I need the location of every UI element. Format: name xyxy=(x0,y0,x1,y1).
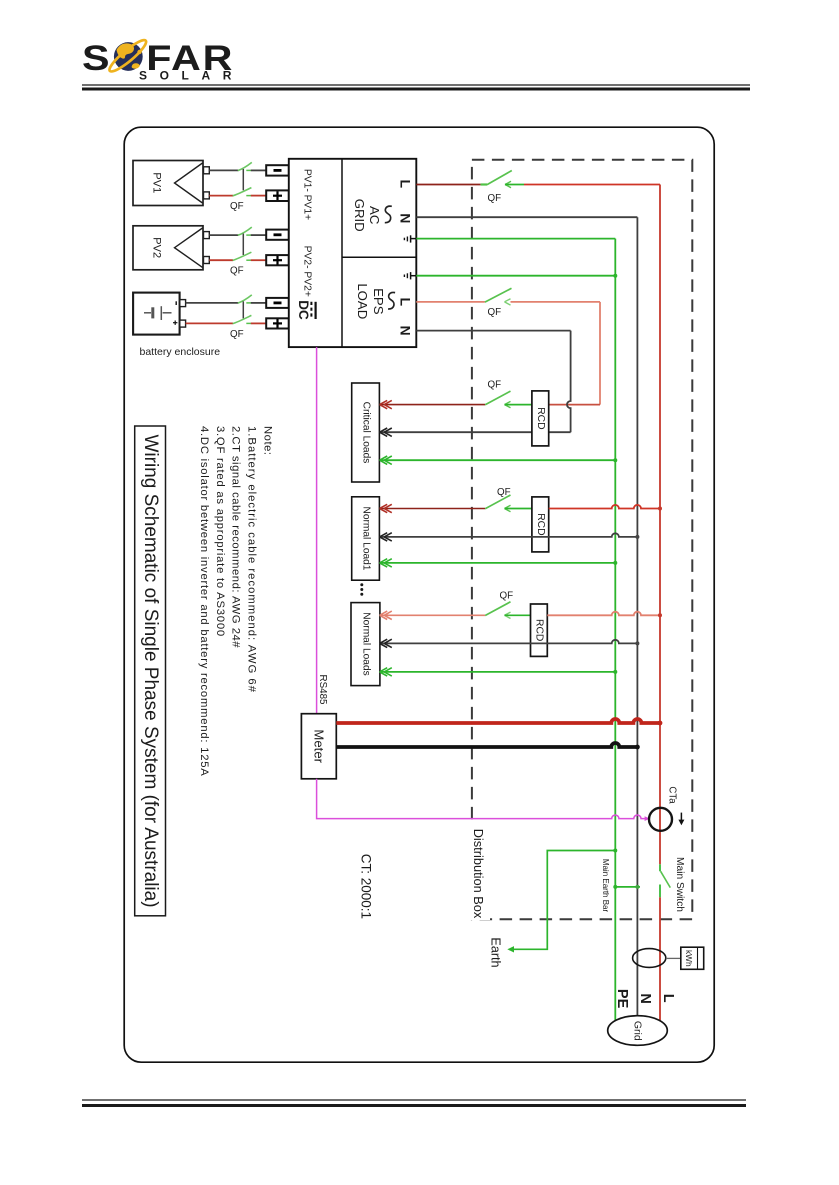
svg-text:N: N xyxy=(637,993,653,1003)
wire PV2+ to QF xyxy=(209,259,233,261)
wire EPS L vertical drop xyxy=(599,302,601,405)
wire EPS N vertical drop xyxy=(567,331,571,433)
svg-text:LOAD: LOAD xyxy=(355,283,370,319)
svg-text:AC: AC xyxy=(367,206,382,225)
svg-text:QF: QF xyxy=(488,193,502,204)
wire QF to block PV2- xyxy=(251,234,266,236)
svg-text:4.DC isolator between inverter: 4.DC isolator between inverter and batte… xyxy=(198,426,210,777)
svg-text:RCD: RCD xyxy=(535,513,546,535)
svg-text:L: L xyxy=(397,298,412,306)
inverter label DC with symbol xyxy=(296,300,316,320)
wire NL1 L RCD to red bus with hops xyxy=(549,505,660,509)
svg-text:QF: QF xyxy=(230,201,244,212)
svg-text:Grid: Grid xyxy=(632,1021,644,1041)
svg-text:Normal Loads: Normal Loads xyxy=(361,612,372,675)
wire EPS N inverter to vertical xyxy=(416,330,570,332)
wire NLs N with hop xyxy=(380,640,637,644)
svg-text:PV1: PV1 xyxy=(151,172,163,193)
red bus L below main switch xyxy=(659,897,661,1022)
PV2 minus terminal xyxy=(204,232,210,239)
junction critical PE xyxy=(613,458,617,462)
svg-text:PE: PE xyxy=(614,989,630,1009)
PV2 plus terminal xyxy=(204,257,210,264)
svg-text:RCD: RCD xyxy=(533,619,544,641)
wire RS485 inverter to meter xyxy=(316,347,318,714)
junction MEN neutral bus xyxy=(635,885,639,889)
current transformer CTa xyxy=(649,808,672,831)
PV1 plus terminal xyxy=(204,192,210,199)
wire GRID L inverter to QF xyxy=(416,184,480,186)
wire QF to block PV1+ xyxy=(251,195,266,197)
logo SOFAR SOLAR xyxy=(82,37,244,83)
arrows critical PE xyxy=(380,456,392,464)
wire EPS L QF to vertical xyxy=(511,301,601,303)
breaker QF2 (PV2 DC isolator) xyxy=(230,227,252,276)
wire EPS N to critical loads xyxy=(380,431,571,433)
breaker QF grid L xyxy=(487,171,524,204)
CT arrow magenta xyxy=(645,816,650,821)
MEN link wire xyxy=(615,886,640,888)
svg-text:QF: QF xyxy=(230,265,244,276)
svg-text:Meter: Meter xyxy=(311,729,326,763)
svg-text:Earth: Earth xyxy=(488,937,502,967)
svg-text:CTa: CTa xyxy=(666,786,677,804)
wire GRID N inverter to bus xyxy=(416,216,637,218)
svg-text:2.CT signal cable recommend: A: 2.CT signal cable recommend: AWG 24# xyxy=(230,426,242,648)
grid source ellipse xyxy=(608,1016,668,1046)
normal loads box xyxy=(351,603,380,686)
wire GRID L QF to red bus xyxy=(524,184,660,186)
junction NL1 L xyxy=(658,507,662,511)
wire GRID PE inverter to bus xyxy=(416,238,615,240)
battery enclosure box xyxy=(133,293,180,335)
svg-text:Main Earth Bar: Main Earth Bar xyxy=(601,859,610,913)
svg-text:S: S xyxy=(82,39,110,78)
junction NLs PE xyxy=(613,670,617,674)
wire NL1 N with hop xyxy=(380,533,637,537)
inverter U1 xyxy=(289,159,417,347)
arrows NLs PE xyxy=(380,668,392,676)
svg-text:3.QF rated as appropriate to A: 3.QF rated as appropriate to AS3000 xyxy=(214,426,226,637)
CTa direction arrow xyxy=(678,813,684,826)
ellipsis dots between load boxes xyxy=(360,583,363,595)
svg-text:GRID: GRID xyxy=(352,199,367,232)
arrows NL1 PE xyxy=(380,559,392,567)
junction NLs N xyxy=(635,641,639,645)
breaker QF1 (PV1 DC isolator) xyxy=(230,162,252,211)
wire battery+ to QF xyxy=(186,322,233,324)
arrows critical N xyxy=(380,428,392,436)
schematic outer border xyxy=(124,127,714,1062)
svg-text:kWh: kWh xyxy=(684,950,694,967)
inverter label GRID AC ~ xyxy=(352,199,392,232)
wire EPS L to RCD1 with hop xyxy=(549,404,600,406)
svg-text:QF: QF xyxy=(230,329,244,340)
wire NLs PE xyxy=(380,671,615,673)
wire meter CT magenta with hops xyxy=(317,779,648,819)
arrows NL1 N xyxy=(380,533,392,541)
svg-text:1.Battery electric cable recom: 1.Battery electric cable recommend: AWG … xyxy=(245,426,257,693)
wire critical PE xyxy=(380,459,615,461)
wire PV1+ to QF xyxy=(209,195,233,197)
RCD3 xyxy=(531,604,548,656)
main switch on L bus xyxy=(660,864,670,897)
svg-text:QF: QF xyxy=(500,591,514,602)
kWh register box xyxy=(681,947,704,969)
header rule xyxy=(82,85,750,89)
svg-text:Main Switch: Main Switch xyxy=(674,857,685,912)
svg-text:EPS: EPS xyxy=(371,288,386,315)
battery minus terminal xyxy=(180,300,186,307)
terminal block BAT+ xyxy=(266,318,289,328)
svg-text:L: L xyxy=(397,180,412,188)
arrows critical L xyxy=(380,400,392,408)
wire QF to block BAT- xyxy=(251,302,266,304)
wire kWh link xyxy=(666,957,681,959)
title box xyxy=(135,426,166,916)
junction meter L xyxy=(658,721,663,726)
junction NLs L xyxy=(658,613,662,617)
wire EPS L inverter to QF xyxy=(416,301,485,303)
critical loads box xyxy=(352,383,380,482)
wire PV1- to QF xyxy=(209,169,238,171)
svg-text:Note:: Note: xyxy=(262,426,274,456)
red bus L vertical xyxy=(659,185,661,865)
battery plus terminal xyxy=(180,320,186,327)
svg-text:Normal Load1: Normal Load1 xyxy=(361,507,372,571)
terminal block BAT- xyxy=(266,298,289,308)
distribution box label xyxy=(467,826,490,920)
note text xyxy=(198,426,273,777)
svg-text:Critical Loads: Critical Loads xyxy=(361,402,372,464)
dark bus N vertical xyxy=(636,217,638,1017)
svg-text:N: N xyxy=(397,326,412,336)
svg-text:QF: QF xyxy=(488,380,502,391)
earth branch wire xyxy=(509,851,615,950)
junction earth branch xyxy=(613,849,617,853)
svg-text:CT: 2000:1: CT: 2000:1 xyxy=(359,854,374,919)
wire NLs L RCD to red bus with hops xyxy=(547,612,660,616)
svg-text:PV1- PV1+: PV1- PV1+ xyxy=(301,169,312,220)
wire EPS PE inverter to bus xyxy=(416,275,615,277)
PV panel PV1 xyxy=(133,161,203,206)
svg-text:QF: QF xyxy=(488,307,502,318)
wire QF to block BAT+ xyxy=(251,322,266,324)
wire meter N thick black with hop xyxy=(336,743,637,747)
svg-text:SOLAR: SOLAR xyxy=(139,69,244,83)
junction MEN green bus xyxy=(613,885,617,889)
wire NL1 L box to QF xyxy=(380,508,485,510)
inverter EPS PE ground symbol xyxy=(404,272,416,279)
svg-text:QF: QF xyxy=(497,487,511,498)
terminal block PV1+ xyxy=(266,190,289,201)
svg-text:N: N xyxy=(397,213,412,223)
breaker QF normal load1 xyxy=(485,487,532,512)
junction NL1 PE xyxy=(613,561,617,565)
earth arrow xyxy=(507,946,514,952)
svg-text:PV2: PV2 xyxy=(151,237,163,258)
arrows NLs N xyxy=(380,639,392,647)
wire critical L box to QF xyxy=(380,404,485,406)
wire NL1 PE xyxy=(380,562,615,564)
junction meter N xyxy=(635,745,640,750)
distribution box dashed enclosure xyxy=(472,160,692,919)
wire meter L thick red with hops xyxy=(336,719,660,723)
kWh meter ellipse xyxy=(633,949,666,968)
terminal block PV2+ xyxy=(266,255,289,265)
breaker QF eps L xyxy=(485,288,512,318)
junction EPS PE xyxy=(613,274,617,278)
svg-text:Wiring Schematic of Single Pha: Wiring Schematic of Single Phase System … xyxy=(140,434,161,907)
breaker QF normal loads xyxy=(485,591,530,619)
arrows NLs L xyxy=(380,611,392,619)
breaker QF critical xyxy=(485,380,532,408)
wire QF to block PV2+ xyxy=(251,259,266,261)
footer rule xyxy=(82,1100,746,1106)
svg-text:battery enclosure: battery enclosure xyxy=(140,346,221,358)
svg-text:RCD: RCD xyxy=(535,407,546,429)
wire NLs L box to QF xyxy=(380,614,485,616)
PV1 minus terminal xyxy=(204,167,210,174)
svg-text:Distribution Box: Distribution Box xyxy=(471,829,486,919)
wire PV2- to QF xyxy=(209,234,238,236)
RCD1 xyxy=(532,391,549,446)
PV panel PV2 xyxy=(133,226,203,270)
green bus PE vertical xyxy=(614,239,616,1022)
terminal block PV1- xyxy=(266,165,289,175)
svg-text:L: L xyxy=(660,994,676,1003)
normal load1 box xyxy=(352,497,380,580)
breaker QF3 (battery DC isolator) xyxy=(230,295,252,340)
inverter label EPS LOAD ~ xyxy=(355,283,395,319)
inverter GRID PE ground symbol xyxy=(404,235,416,242)
wire QF to block PV1- xyxy=(251,169,266,171)
arrows NL1 L xyxy=(380,504,392,512)
terminal block PV2- xyxy=(266,230,289,240)
junction NL1 N xyxy=(635,535,639,539)
wire battery- to QF xyxy=(186,302,239,304)
meter M1 xyxy=(301,714,336,779)
svg-text:RS485: RS485 xyxy=(317,675,328,706)
RCD2 xyxy=(532,497,549,552)
svg-text:PV2- PV2+: PV2- PV2+ xyxy=(301,246,312,297)
svg-text:DC: DC xyxy=(296,300,311,320)
